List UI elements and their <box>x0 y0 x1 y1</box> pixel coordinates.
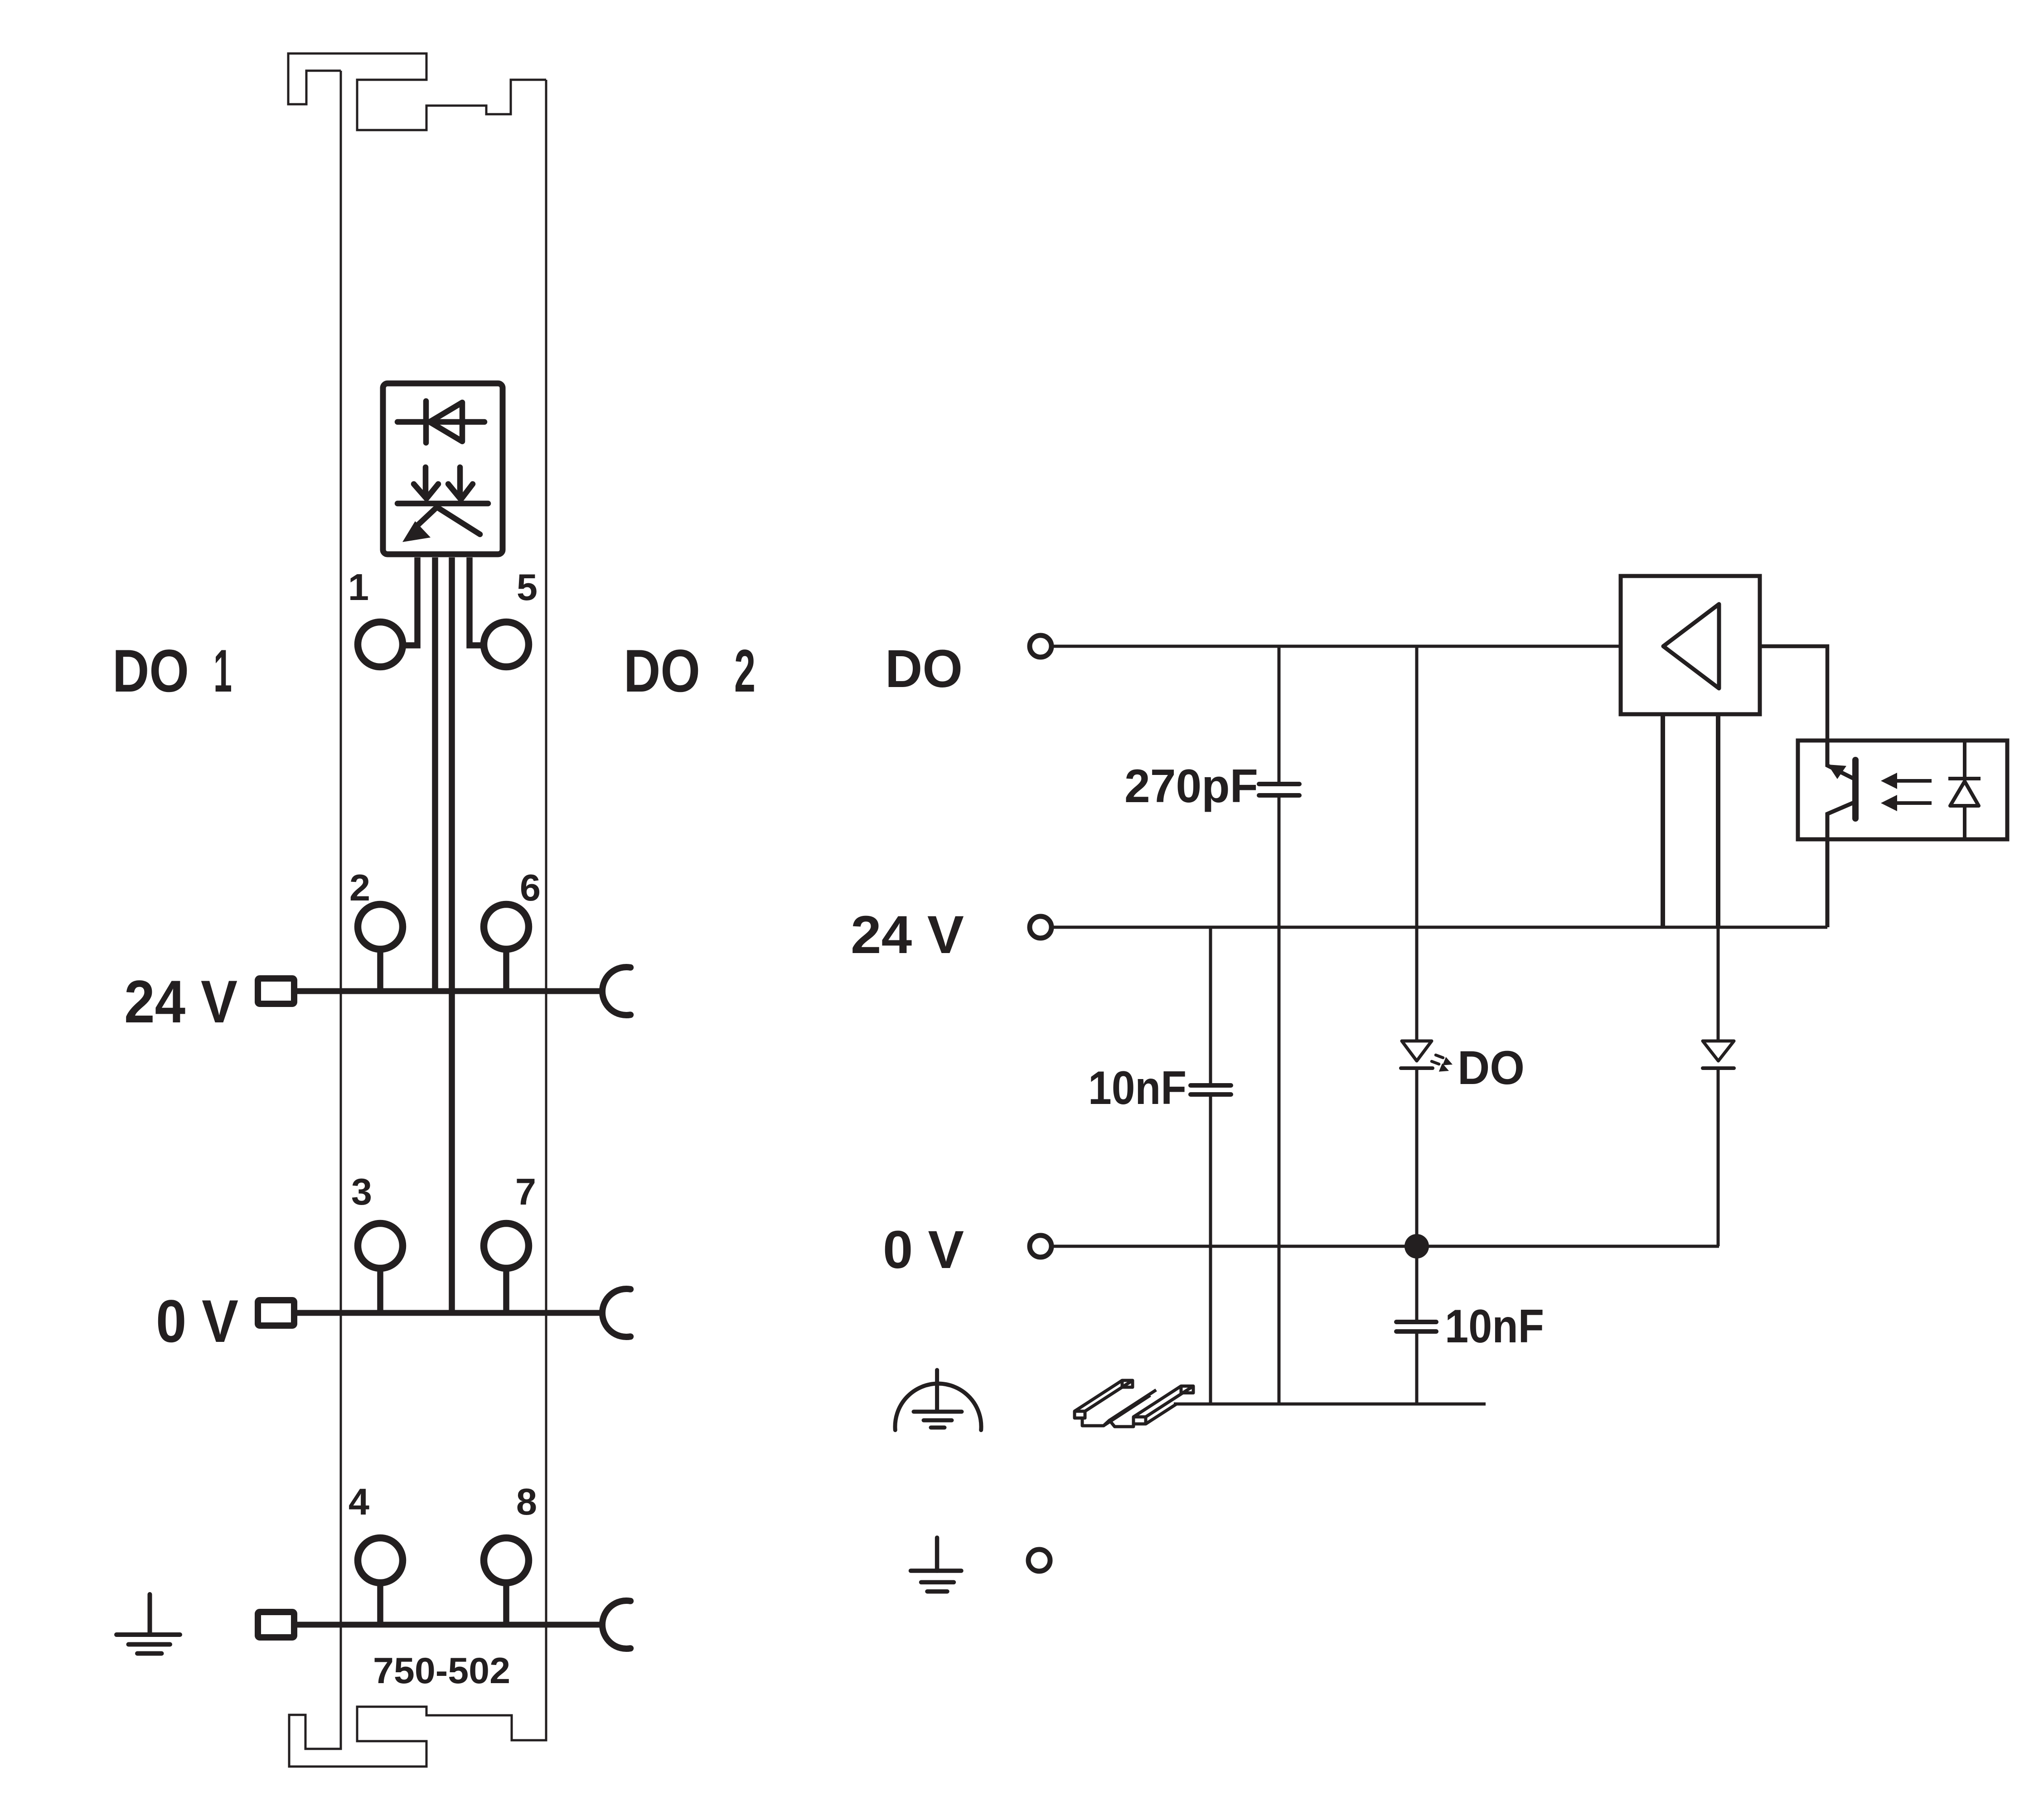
svg-text:750-502: 750-502 <box>373 1651 510 1691</box>
svg-text:3: 3 <box>351 1171 372 1213</box>
svg-text:0 V: 0 V <box>883 1220 964 1280</box>
svg-text:2: 2 <box>349 866 370 909</box>
svg-text:24 V: 24 V <box>124 968 237 1036</box>
svg-text:DO: DO <box>112 638 189 705</box>
svg-text:7: 7 <box>515 1171 536 1213</box>
svg-text:270pF: 270pF <box>1124 760 1258 813</box>
svg-text:10nF: 10nF <box>1088 1062 1186 1114</box>
svg-text:10nF: 10nF <box>1445 1300 1544 1353</box>
svg-text:0 V: 0 V <box>156 1288 238 1355</box>
svg-text:1: 1 <box>213 638 232 705</box>
svg-text:24 V: 24 V <box>851 905 964 965</box>
svg-text:1: 1 <box>348 566 369 608</box>
svg-text:8: 8 <box>516 1481 537 1523</box>
svg-text:4: 4 <box>349 1481 369 1523</box>
svg-text:2: 2 <box>734 638 755 705</box>
svg-text:DO: DO <box>1458 1041 1525 1094</box>
svg-text:5: 5 <box>517 566 538 608</box>
svg-text:6: 6 <box>520 866 541 909</box>
svg-text:DO: DO <box>624 638 700 705</box>
svg-text:DO: DO <box>885 639 963 699</box>
